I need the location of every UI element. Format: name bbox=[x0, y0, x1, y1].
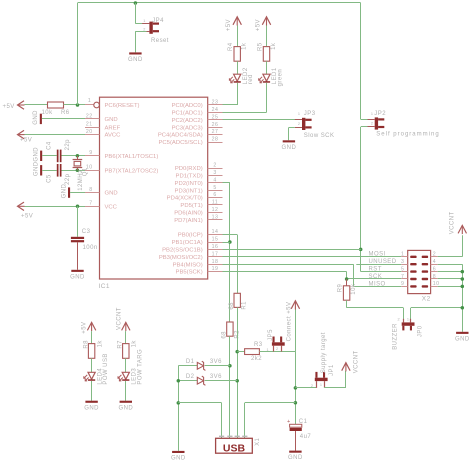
wire R3 to JP5 and +5V bbox=[259, 351, 295, 353]
svg-text:4: 4 bbox=[213, 177, 216, 183]
svg-text:2: 2 bbox=[276, 347, 279, 351]
svg-text:1k: 1k bbox=[98, 340, 104, 348]
X2 pins 1/2 bbox=[401, 256, 407, 258]
svg-text:9: 9 bbox=[401, 281, 404, 287]
pin 1 PC6/RESET inverted circle bbox=[85, 104, 94, 106]
wire PB1 pin15 bbox=[223, 242, 230, 244]
wire D+ to R3 bbox=[237, 351, 244, 353]
svg-text:PB6(XTAL1/TOSC1): PB6(XTAL1/TOSC1) bbox=[105, 154, 159, 160]
svg-text:R1: R1 bbox=[242, 301, 248, 310]
svg-text:17: 17 bbox=[212, 251, 219, 257]
svg-text:R8: R8 bbox=[83, 340, 89, 349]
junction R3 on D+ bbox=[235, 350, 239, 354]
svg-text:6: 6 bbox=[433, 266, 436, 272]
supply +5V arrow (connect) bbox=[295, 309, 297, 351]
pin 20 stub bbox=[85, 134, 100, 136]
wire GND to C5 bbox=[42, 170, 57, 172]
svg-text:11: 11 bbox=[212, 200, 218, 206]
wire R4 to LED2 bbox=[237, 61, 239, 74]
wire VCCNT to R7 bbox=[125, 331, 127, 344]
svg-text:6: 6 bbox=[213, 192, 216, 198]
svg-text:1k: 1k bbox=[132, 340, 138, 348]
svg-text:PB0(ICP): PB0(ICP) bbox=[178, 233, 203, 239]
wire PB0 pin14 to D+ vertical bbox=[223, 234, 238, 236]
junctions on ground vertical bbox=[461, 270, 465, 274]
X1 pin name ticks bbox=[219, 436, 224, 437]
wire +5V to R6 bbox=[25, 104, 48, 106]
svg-text:GND: GND bbox=[34, 147, 40, 162]
svg-text:GND: GND bbox=[61, 184, 67, 199]
junction VBUS branch bbox=[294, 401, 298, 405]
svg-text:Self programming: Self programming bbox=[376, 132, 439, 138]
resistor R9 10k bbox=[346, 279, 348, 286]
svg-text:USB: USB bbox=[223, 443, 246, 455]
svg-text:PD1(TXD): PD1(TXD) bbox=[176, 174, 203, 180]
svg-text:3V6: 3V6 bbox=[210, 359, 222, 365]
svg-text:PC6(RESET): PC6(RESET) bbox=[105, 103, 140, 109]
wire PB2 to RST junction bbox=[223, 249, 361, 251]
wire MISO PB4 bbox=[223, 264, 354, 266]
svg-text:1: 1 bbox=[266, 348, 269, 352]
wire JP3 pin2 to GND bbox=[289, 127, 295, 129]
wire D- vertical lower to X1 bbox=[229, 336, 231, 438]
wire LED3 to GND bbox=[125, 381, 127, 401]
wire D+ vertical upper bbox=[237, 235, 239, 294]
jumper JP1 (Supply target) bbox=[315, 378, 328, 381]
svg-text:3: 3 bbox=[401, 259, 404, 265]
capacitor C1 4u7 polarized bbox=[290, 424, 302, 427]
svg-text:VCCNT: VCCNT bbox=[353, 350, 359, 373]
wire UNUSED stub to X2 pin3 bbox=[356, 264, 401, 266]
svg-text:GND: GND bbox=[455, 336, 470, 342]
svg-text:UNUSED: UNUSED bbox=[369, 259, 397, 265]
svg-text:VCC: VCC bbox=[105, 204, 118, 210]
svg-text:JP2: JP2 bbox=[374, 111, 386, 117]
pin 15 stub bbox=[208, 242, 223, 244]
crystal Q1 12MHz bbox=[77, 156, 79, 160]
wire R5 to LED1 bbox=[266, 61, 268, 74]
wire GND rail vertical bbox=[178, 366, 180, 451]
pin 17 stub bbox=[208, 256, 223, 258]
svg-text:C3: C3 bbox=[82, 229, 91, 235]
supply +5V arrow (LED1) bbox=[262, 17, 270, 25]
op-amp: main MCU IC1 box bbox=[100, 97, 208, 279]
svg-text:PD7(AIN1): PD7(AIN1) bbox=[174, 218, 203, 224]
pin 10 stub bbox=[85, 170, 100, 172]
svg-text:Slow SCK: Slow SCK bbox=[304, 133, 335, 139]
svg-text:GND: GND bbox=[34, 161, 40, 176]
pin 12 stub bbox=[208, 212, 223, 214]
jumper JP0 (buzzer) bbox=[402, 322, 415, 325]
wire X2 pin2 to VCCNT arrow bbox=[438, 256, 463, 258]
wire +5V to R8 bbox=[91, 331, 93, 344]
junction SCK / R9 bbox=[345, 277, 349, 281]
svg-text:10k: 10k bbox=[42, 110, 54, 116]
svg-text:PD3(INT1): PD3(INT1) bbox=[175, 188, 203, 194]
wire C5 to pin10 bbox=[62, 170, 86, 172]
supply +5V arrow (VCC) bbox=[18, 202, 25, 210]
svg-text:R6: R6 bbox=[61, 110, 70, 116]
svg-text:21: 21 bbox=[86, 122, 93, 128]
svg-text:1: 1 bbox=[298, 112, 301, 116]
pin 7 stub bbox=[85, 206, 100, 208]
capacitor C5 22p bbox=[57, 164, 59, 177]
svg-text:C4: C4 bbox=[47, 141, 53, 150]
svg-text:15: 15 bbox=[212, 237, 219, 243]
resistor R3 2k2 bbox=[245, 349, 260, 355]
svg-text:PD5(T1): PD5(T1) bbox=[180, 203, 202, 209]
resistor R7 1k bbox=[123, 344, 129, 359]
svg-text:PC4(ADC4/SDA): PC4(ADC4/SDA) bbox=[158, 133, 203, 139]
wire C1 to GND bbox=[295, 431, 297, 451]
svg-text:2: 2 bbox=[371, 122, 374, 126]
svg-text:Supply target: Supply target bbox=[321, 332, 327, 373]
pin 24 stub bbox=[208, 112, 223, 114]
svg-text:23: 23 bbox=[212, 100, 219, 106]
svg-text:R9: R9 bbox=[337, 284, 343, 293]
svg-text:C1: C1 bbox=[299, 419, 308, 425]
svg-text:JP5: JP5 bbox=[268, 329, 274, 341]
supply VCCNT arrow (POW TARG) bbox=[122, 322, 130, 330]
wire PC2 pin25 to JP3 pin1 bbox=[223, 119, 298, 121]
wire LED1 to PC1 pin24 bbox=[266, 83, 268, 113]
wire +5V vertical to USB VBUS bbox=[295, 352, 297, 425]
svg-text:PC2(ADC2): PC2(ADC2) bbox=[172, 118, 203, 124]
svg-text:JP1: JP1 bbox=[329, 364, 335, 376]
wire R8 to LED4 bbox=[91, 358, 93, 372]
resistor R5 1k bbox=[263, 47, 269, 62]
svg-text:D1: D1 bbox=[186, 359, 195, 365]
svg-text:1: 1 bbox=[371, 112, 374, 116]
resistor R2 68 bbox=[227, 322, 233, 336]
ground for C5 bbox=[40, 165, 42, 175]
junction XTAL1 bbox=[76, 154, 80, 158]
wire JP2 pin2 down to RST node bbox=[361, 126, 368, 128]
junction D2 on GND rail bbox=[177, 379, 181, 383]
wire GND to pin8 bbox=[70, 192, 85, 194]
junction reset node bbox=[76, 103, 80, 107]
svg-text:+5V: +5V bbox=[226, 19, 232, 31]
svg-text:8: 8 bbox=[433, 274, 436, 280]
wire reset rail down to JP2 pin1 bbox=[360, 3, 362, 119]
svg-text:PB2(SS/OC1B): PB2(SS/OC1B) bbox=[162, 248, 203, 254]
svg-text:SCK: SCK bbox=[369, 274, 383, 280]
wire D+ vertical lower to X1 bbox=[237, 307, 239, 438]
svg-text:PC5(ADC5/SCL): PC5(ADC5/SCL) bbox=[158, 140, 202, 146]
svg-text:X2: X2 bbox=[422, 296, 431, 303]
pin 5 stub bbox=[208, 190, 223, 192]
svg-text:PD6(AIN0): PD6(AIN0) bbox=[174, 211, 203, 217]
pin 14 stub bbox=[208, 234, 223, 236]
svg-text:R7: R7 bbox=[118, 340, 124, 349]
X2 pins 7/8 bbox=[401, 278, 407, 280]
svg-text:R4: R4 bbox=[228, 42, 234, 51]
svg-text:PB1(OC1A): PB1(OC1A) bbox=[172, 240, 203, 246]
svg-text:26: 26 bbox=[212, 122, 219, 128]
svg-text:PC0(ADC0): PC0(ADC0) bbox=[172, 103, 203, 109]
svg-text:1: 1 bbox=[320, 383, 323, 387]
ground at LED4 bbox=[85, 401, 97, 403]
svg-text:13: 13 bbox=[212, 214, 219, 220]
svg-text:PB5(SCK): PB5(SCK) bbox=[176, 270, 203, 276]
jumper JP4 (Reset) bbox=[149, 22, 152, 34]
svg-text:14: 14 bbox=[212, 229, 219, 235]
resistor R8 1k bbox=[88, 344, 94, 359]
pin 28 stub bbox=[208, 142, 223, 144]
pin 27 stub bbox=[208, 134, 223, 136]
wire PD2 pin4 to D- vertical bbox=[223, 182, 230, 184]
svg-text:7: 7 bbox=[89, 201, 92, 207]
svg-text:X1: X1 bbox=[255, 437, 261, 445]
ground at C3 bbox=[71, 270, 83, 272]
svg-text:MISO: MISO bbox=[369, 281, 386, 287]
svg-text:RST: RST bbox=[369, 267, 382, 273]
svg-text:25: 25 bbox=[212, 114, 219, 120]
pin 11 stub bbox=[208, 204, 223, 206]
svg-text:green: green bbox=[277, 69, 283, 87]
svg-text:22: 22 bbox=[86, 113, 93, 119]
svg-text:+5V: +5V bbox=[20, 138, 32, 144]
ground at X2 bbox=[456, 332, 468, 334]
ground for C4 bbox=[40, 151, 42, 161]
wire +5V to R4 bbox=[237, 26, 239, 47]
svg-text:POW TARG: POW TARG bbox=[137, 349, 143, 385]
wire RST into X2 pin5 bbox=[361, 271, 402, 273]
wires X2 ground pins 4,6,8,10 bbox=[438, 264, 463, 266]
junction D2 on D+ bbox=[235, 379, 239, 383]
wire LED4 to GND bbox=[91, 381, 93, 401]
svg-text:GND: GND bbox=[282, 145, 297, 151]
svg-text:+5V: +5V bbox=[21, 214, 33, 220]
svg-text:12: 12 bbox=[212, 207, 219, 213]
svg-text:100n: 100n bbox=[83, 245, 98, 251]
ground at pin8 bbox=[68, 187, 70, 197]
svg-text:19: 19 bbox=[212, 266, 219, 272]
junction XTAL2 bbox=[76, 169, 80, 173]
svg-text:+5V: +5V bbox=[256, 19, 262, 31]
connector X2 box bbox=[408, 250, 431, 293]
svg-text:3V6: 3V6 bbox=[210, 374, 222, 380]
svg-text:JP3: JP3 bbox=[304, 111, 316, 117]
svg-text:12MHz: 12MHz bbox=[78, 170, 84, 191]
pin 26 stub bbox=[208, 127, 223, 129]
svg-text:2: 2 bbox=[298, 122, 301, 126]
X2 pins 3/4 bbox=[401, 264, 407, 266]
pin 25 stub bbox=[208, 119, 223, 121]
svg-text:1: 1 bbox=[143, 19, 146, 23]
svg-text:68: 68 bbox=[229, 302, 235, 310]
svg-text:1: 1 bbox=[407, 318, 410, 322]
jumper JP5 (Connect +5V) bbox=[272, 342, 285, 345]
wire D- vertical upper bbox=[229, 183, 231, 322]
X2 pins 9/10 bbox=[401, 286, 407, 288]
svg-text:1k: 1k bbox=[242, 42, 248, 50]
wire buzzer pin stubs bbox=[403, 308, 405, 319]
supply +5V arrow (POW USB) bbox=[87, 322, 95, 330]
svg-text:16: 16 bbox=[212, 244, 219, 250]
svg-text:GND: GND bbox=[118, 405, 133, 411]
svg-text:+5V: +5V bbox=[3, 104, 15, 110]
svg-text:22p: 22p bbox=[65, 139, 71, 151]
svg-text:9: 9 bbox=[89, 150, 92, 156]
wire GND to pin22 bbox=[42, 118, 85, 120]
wire to JP1 bbox=[295, 387, 316, 389]
svg-text:5: 5 bbox=[401, 266, 404, 272]
svg-text:4: 4 bbox=[433, 259, 436, 265]
junction at JP4 branch bbox=[134, 1, 138, 5]
svg-text:GND: GND bbox=[105, 117, 118, 123]
LED LED1 green bbox=[263, 74, 270, 81]
pin 4 stub bbox=[208, 182, 223, 184]
svg-text:GND: GND bbox=[128, 57, 143, 63]
jumper JP2 (Self programming) bbox=[375, 117, 378, 129]
svg-text:2: 2 bbox=[433, 252, 436, 258]
svg-text:IC1: IC1 bbox=[99, 283, 110, 290]
svg-text:10k: 10k bbox=[351, 283, 357, 295]
svg-text:red: red bbox=[248, 74, 254, 84]
pin 9 stub bbox=[85, 155, 100, 157]
wire C4 to pin9 bbox=[62, 155, 86, 157]
svg-text:MOSI: MOSI bbox=[369, 252, 386, 258]
wire to JP4 pin1 bbox=[135, 3, 137, 24]
wire USB GND pin bbox=[178, 402, 221, 404]
svg-text:PB7(XTAL2/TOSC2): PB7(XTAL2/TOSC2) bbox=[105, 168, 159, 174]
svg-text:27: 27 bbox=[212, 129, 219, 135]
svg-text:+5V: +5V bbox=[81, 321, 87, 333]
wire LED2 to PC0 pin23 bbox=[237, 83, 239, 105]
svg-text:4u7: 4u7 bbox=[300, 434, 312, 440]
X2 pins 5/6 bbox=[401, 271, 407, 273]
svg-text:Reset: Reset bbox=[151, 38, 169, 44]
capacitor C3 100n bbox=[71, 237, 84, 239]
ground at pin22 bbox=[40, 114, 42, 124]
svg-text:3: 3 bbox=[213, 170, 216, 176]
pin 18 stub bbox=[208, 264, 223, 266]
svg-text:68: 68 bbox=[222, 331, 228, 339]
svg-text:28: 28 bbox=[212, 137, 219, 143]
svg-text:1: 1 bbox=[401, 252, 404, 258]
supply VCCNT arrow (JP1) bbox=[342, 363, 350, 371]
ground at LED3 bbox=[120, 401, 132, 403]
svg-text:18: 18 bbox=[212, 259, 219, 265]
supply +5V arrow (LED2) bbox=[233, 17, 241, 25]
svg-text:2k2: 2k2 bbox=[251, 356, 262, 362]
wire SCK PB5 bbox=[223, 271, 347, 273]
resistor R1 68 bbox=[234, 293, 240, 307]
svg-text:GND: GND bbox=[70, 274, 85, 280]
svg-text:AREF: AREF bbox=[105, 125, 121, 131]
svg-text:PC3(ADC3): PC3(ADC3) bbox=[172, 125, 203, 131]
svg-text:VCCNT: VCCNT bbox=[116, 307, 122, 330]
wire VCC down to C3 bbox=[77, 206, 79, 237]
svg-text:GND: GND bbox=[84, 405, 99, 411]
wire C3 to GND bbox=[77, 242, 79, 269]
wire JP1 to VCCNT arrow bbox=[324, 387, 346, 389]
zener diode D1 3V6 bbox=[178, 365, 197, 367]
svg-text:AVCC: AVCC bbox=[105, 133, 122, 139]
capacitor C4 22p bbox=[57, 150, 59, 163]
svg-text:D2: D2 bbox=[186, 374, 195, 380]
svg-text:BUZZER: BUZZER bbox=[392, 323, 398, 350]
pin 8 stub bbox=[85, 192, 100, 194]
junction JP1 branch bbox=[294, 386, 298, 390]
zener diode D2 3V6 bbox=[178, 380, 197, 382]
pin 3 stub bbox=[208, 175, 223, 177]
wire JP4 pin2 to GND bbox=[135, 31, 146, 33]
junction USB GND on rail bbox=[177, 401, 181, 405]
svg-text:JP0: JP0 bbox=[418, 325, 424, 337]
wire +5V to VCC pin7 bbox=[25, 206, 86, 208]
junction PB2/RST bbox=[359, 248, 363, 252]
ground at USB rail bbox=[172, 451, 184, 453]
svg-text:GND: GND bbox=[105, 191, 118, 197]
wire +5V to AVCC pin20 bbox=[25, 134, 86, 136]
svg-text:VCCNT: VCCNT bbox=[449, 211, 455, 234]
pin 19 stub bbox=[208, 271, 223, 273]
svg-text:20: 20 bbox=[86, 129, 93, 135]
wire GND to C4 bbox=[42, 155, 57, 157]
wire +5V to R5 bbox=[266, 26, 268, 47]
svg-text:7: 7 bbox=[401, 274, 404, 280]
supply VCCNT arrow (X2) bbox=[458, 225, 466, 233]
supply +5V arrow (AVCC) bbox=[18, 130, 25, 138]
svg-text:GND: GND bbox=[288, 455, 303, 461]
svg-text:+: + bbox=[287, 419, 290, 425]
svg-text:GND: GND bbox=[33, 110, 39, 125]
wire top reset rail bbox=[78, 2, 361, 4]
pin 22 stub bbox=[85, 118, 100, 120]
pin 13 stub bbox=[208, 219, 223, 221]
pin 21 stub bbox=[85, 127, 100, 129]
svg-text:PD2(INT0): PD2(INT0) bbox=[175, 181, 203, 187]
svg-text:PD4(XCK/T0): PD4(XCK/T0) bbox=[167, 196, 203, 202]
connector X1 USB box bbox=[216, 438, 253, 453]
pin 6 stub bbox=[208, 197, 223, 199]
svg-text:8: 8 bbox=[89, 187, 92, 193]
svg-text:1k: 1k bbox=[271, 42, 277, 50]
svg-text:2: 2 bbox=[397, 318, 400, 322]
ground at C1 bbox=[289, 451, 301, 453]
wire VBUS to X1 bbox=[245, 402, 296, 404]
LED LED4 POW USB bbox=[88, 372, 95, 379]
svg-text:5: 5 bbox=[213, 185, 216, 191]
svg-text:PB4(MISO): PB4(MISO) bbox=[173, 262, 203, 268]
pin 23 stub bbox=[208, 104, 223, 106]
wire buzzer to GND rail bbox=[411, 307, 462, 309]
svg-text:22p: 22p bbox=[65, 173, 71, 185]
wire R7 to LED3 bbox=[125, 358, 127, 372]
wire X2 ground vertical bbox=[462, 264, 464, 332]
svg-text:PC1(ADC1): PC1(ADC1) bbox=[172, 111, 203, 117]
supply +5V arrow (reset pull-up) bbox=[18, 101, 25, 109]
svg-text:2: 2 bbox=[311, 384, 314, 388]
wire MOSI PB3 to X2 pin1 bbox=[223, 256, 402, 258]
pin 2 stub bbox=[208, 168, 223, 170]
ground at JP4 bbox=[129, 52, 141, 54]
wire R9 to buzzer jumper bbox=[346, 300, 348, 308]
svg-text:GND: GND bbox=[171, 456, 186, 462]
junction PB1 on D- bbox=[228, 240, 232, 244]
svg-text:POW USB: POW USB bbox=[103, 353, 109, 385]
ground at JP3 bbox=[283, 140, 295, 142]
LED LED2 red bbox=[234, 74, 241, 81]
resistor R4 1k bbox=[234, 47, 240, 62]
svg-text:PD0(RXD): PD0(RXD) bbox=[175, 166, 203, 172]
wire R6 to IC1 pin1 bbox=[64, 104, 91, 106]
jumper JP3 (Slow SCK) bbox=[302, 118, 305, 130]
svg-text:C5: C5 bbox=[47, 174, 53, 183]
svg-text:R5: R5 bbox=[257, 42, 263, 51]
